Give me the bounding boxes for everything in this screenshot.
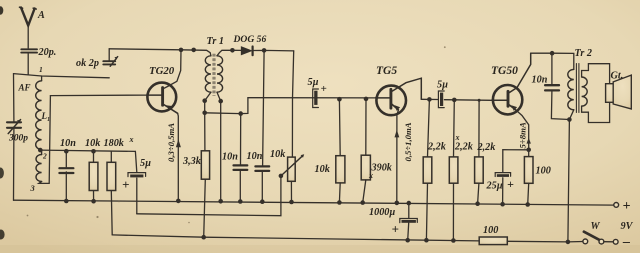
wire volume wiper line [137, 176, 281, 216]
svg-text:+: + [507, 177, 514, 191]
wire left vertical (300p branch) [13, 74, 15, 122]
wire Tr1 secondary top lead to diode rail [217, 50, 241, 56]
wire AF line from Tr1 primary tap [205, 98, 376, 114]
wire minus bus left segment [112, 235, 479, 241]
wire pot bottom to plus bus [290, 181, 292, 202]
resistor 10k (detector bias) [89, 162, 98, 190]
current arrow 5-8mA [527, 138, 531, 144]
wire coil end 3 to base bracket [39, 96, 51, 184]
wire Tr2 secondary to speaker loop [582, 64, 610, 123]
scan smudge left edge bottom [0, 230, 5, 240]
transformer Tr2 core [576, 64, 579, 113]
svg-text:x: x [368, 171, 373, 180]
switch contact middle [599, 239, 604, 244]
svg-text:5µ: 5µ [140, 158, 151, 169]
svg-text:10n: 10n [60, 138, 76, 149]
svg-text:1: 1 [39, 65, 43, 74]
resistor 2,2k (first) [423, 157, 432, 183]
svg-text:9V: 9V [621, 221, 634, 232]
resistor 2,2k (second) [449, 157, 458, 183]
capacitor 5u bottom lead to volume wiper line [136, 178, 138, 214]
resistor 2,2k (third) leads [478, 100, 480, 157]
svg-text:ok 2p: ok 2p [76, 58, 99, 69]
wire 390k bottom to plus bus [363, 180, 366, 203]
wire emitter node to 25u [503, 150, 529, 173]
wire 25u bottom to plus bus [502, 178, 504, 204]
resistor 3,3k [201, 151, 209, 179]
svg-text:+: + [321, 83, 327, 95]
svg-text:TG5: TG5 [376, 65, 397, 77]
capacitor 20p [21, 49, 37, 52]
svg-text:25µ: 25µ [486, 181, 503, 192]
wire top rail of tuned circuit [14, 74, 110, 78]
svg-text:10k: 10k [85, 138, 101, 149]
current arrow 0,3-0,5mA [176, 139, 181, 147]
capacitor 1000u top lead [408, 205, 410, 218]
inductor AF coil L1 upper section [36, 81, 42, 150]
wire antenna to 20p [27, 25, 29, 49]
transistor TG50 [492, 85, 523, 114]
svg-text:10k: 10k [315, 164, 331, 175]
capacitor 10n (first) bottom lead [239, 171, 241, 202]
svg-text:100: 100 [536, 166, 551, 177]
wire diode cathode rail [253, 49, 294, 52]
resistor 390k [361, 155, 370, 180]
svg-text:2,2k: 2,2k [454, 142, 474, 153]
wire plus bus [14, 200, 614, 205]
svg-text:+: + [623, 199, 631, 214]
resistor 180k [107, 162, 116, 190]
wire TG20 base line [50, 94, 146, 97]
junction dots [38, 148, 43, 153]
variable capacitor 300p [7, 120, 21, 134]
scan smudge left edge middle [0, 168, 4, 179]
switch W lever [584, 232, 600, 240]
svg-text:Tr 1: Tr 1 [207, 36, 224, 47]
wire Tr2 primary bottom jog to switch bus [568, 110, 574, 242]
svg-text:TG20: TG20 [149, 65, 175, 77]
wire TG5 collector rail to TG50 base [421, 98, 438, 100]
svg-text:5µ: 5µ [308, 77, 319, 88]
capacitor 5u (AF takeoff) electrolytic [128, 173, 146, 178]
wire 10k bottom to plus bus [338, 183, 341, 203]
transformer Tr1 primary winding [205, 56, 211, 92]
capacitor 1000u bottom lead [408, 223, 409, 240]
capacitor 10n (second, detector) [255, 166, 269, 171]
capacitor 5u (AF takeoff) top lead [135, 151, 136, 172]
wire 10n bottom to Tr2 primary bottom [551, 92, 569, 120]
capacitor 25u electrolytic [495, 173, 510, 177]
svg-text:L₁: L₁ [41, 111, 51, 121]
transformer Tr1 core (dashed) [213, 54, 215, 96]
svg-text:+: + [392, 222, 399, 237]
wire TG50 emitter [516, 110, 529, 157]
wire coil top lead [41, 76, 43, 81]
resistor 100 (emitter) [524, 157, 533, 184]
wire minus bus right segment [507, 240, 583, 243]
switch contact left [583, 239, 588, 244]
capacitor 10n (antenna section) leads [65, 151, 67, 167]
wire 3,3k bottom to minus bus [204, 179, 206, 237]
wire coil tap 2 to detector row [40, 150, 135, 151]
svg-text:10k: 10k [270, 149, 286, 160]
svg-text:DOG 56: DOG 56 [233, 34, 267, 45]
wire output rail to Tr2 primary [531, 53, 574, 69]
svg-text:Tr 2: Tr 2 [575, 48, 592, 59]
wire TG50 collector to output rail [508, 53, 530, 93]
transformer Tr1 secondary winding [217, 56, 223, 92]
diode DOG56 [241, 47, 252, 56]
resistor 2,2k (third) [475, 157, 484, 183]
coil tap segment between sections [41, 150, 43, 155]
resistor 10k (TG5 base lower) [336, 156, 345, 183]
capacitor 10n (first, IF filter) top lead [240, 114, 242, 165]
inductor AF coil lower section (tap2 to end 3) [36, 155, 42, 182]
resistor 100 (battery feed) [479, 237, 507, 245]
wire switch to minus terminal [604, 241, 614, 243]
svg-text:2,2k: 2,2k [477, 142, 497, 153]
svg-text:Gt.: Gt. [611, 71, 624, 82]
resistor 2,2k (first) leads [428, 99, 430, 156]
trimmer capacitor ok 2p [103, 57, 117, 67]
wire 100 bottom to plus bus [528, 183, 529, 204]
resistor 10k (detector bias) leads [93, 151, 95, 162]
current arrow 0,5-1,0mA [395, 130, 400, 138]
paper specks [27, 46, 446, 223]
wire TG5 emitter to plus bus [397, 110, 399, 203]
svg-text:180k: 180k [104, 138, 125, 149]
svg-text:0,3÷0,5mA: 0,3÷0,5mA [166, 123, 176, 162]
wire TG20 collector [163, 50, 181, 89]
svg-text:x: x [129, 135, 134, 144]
capacitor 10n (second) bottom lead [261, 172, 263, 202]
svg-text:100: 100 [483, 225, 498, 236]
capacitor 10n (antenna section) [59, 168, 73, 173]
svg-text:10n: 10n [532, 75, 548, 86]
wire TG20 emitter to plus bus [177, 113, 180, 201]
loudspeaker Gt [606, 75, 632, 109]
svg-text:A: A [37, 10, 45, 21]
capacitor 10n (first) [234, 165, 248, 170]
svg-text:AF: AF [18, 83, 31, 93]
capacitor 10n (output) lead [551, 53, 553, 84]
svg-text:10n: 10n [222, 152, 238, 163]
wire TG5 collector [391, 78, 421, 99]
trimmer ok 2p top lead [108, 49, 110, 60]
wire Tr1 secondary bottom to plus bus [217, 92, 221, 201]
svg-text:+: + [122, 177, 129, 192]
svg-text:3: 3 [30, 183, 36, 193]
resistor 10k (TG5 base lower) lead [338, 99, 341, 156]
wire diode node down through 10n to plus bus [263, 50, 265, 166]
antenna A [20, 7, 37, 25]
svg-text:1000µ: 1000µ [369, 207, 395, 218]
resistor 2,2k (second) leads [453, 100, 456, 157]
terminal plus 9V [614, 203, 619, 208]
wire detector output down to volume pot [292, 51, 293, 157]
svg-text:0,5÷1,0mA: 0,5÷1,0mA [403, 122, 413, 161]
wire Tr1 primary bottom jog [205, 92, 211, 151]
wire 300p to plus bus [13, 129, 15, 200]
svg-text:5÷8mA: 5÷8mA [518, 122, 528, 148]
svg-text:TG50: TG50 [491, 65, 518, 77]
capacitor 10n (output) [545, 85, 559, 90]
svg-text:2: 2 [42, 152, 47, 161]
wire top rail trimmer to Tr1 primary [109, 49, 211, 56]
svg-text:W: W [591, 221, 601, 232]
wire 20p to tuned-circuit rail [27, 54, 29, 75]
svg-text:390k: 390k [371, 163, 393, 174]
capacitor 1000u electrolytic [400, 219, 418, 223]
svg-text:2,2k: 2,2k [427, 142, 447, 153]
svg-text:20p.: 20p. [38, 47, 57, 58]
svg-text:10n: 10n [247, 151, 263, 162]
paper shading bottom edge [0, 245, 640, 253]
svg-text:3,3k: 3,3k [182, 156, 202, 167]
capacitor 5u (AF coupling to TG50) [438, 91, 444, 108]
resistor 180k leads (crosses plus bus to minus bus) [110, 151, 112, 162]
scan smudge left edge top [0, 6, 3, 14]
transformer Tr2 secondary winding [582, 77, 588, 106]
potentiometer 10k (volume) [282, 154, 305, 181]
junction dot 2,2k third top (small) [478, 99, 481, 102]
svg-text:300p: 300p [8, 134, 28, 144]
svg-text:5µ: 5µ [437, 80, 448, 91]
transformer Tr2 primary winding [568, 69, 574, 109]
transistor TG20 [147, 83, 178, 114]
resistor 390k lead [365, 99, 367, 155]
terminal minus 9V [613, 239, 618, 244]
transistor TG5 [376, 86, 407, 116]
capacitor 5u (AF coupling to TG5) [313, 89, 319, 108]
